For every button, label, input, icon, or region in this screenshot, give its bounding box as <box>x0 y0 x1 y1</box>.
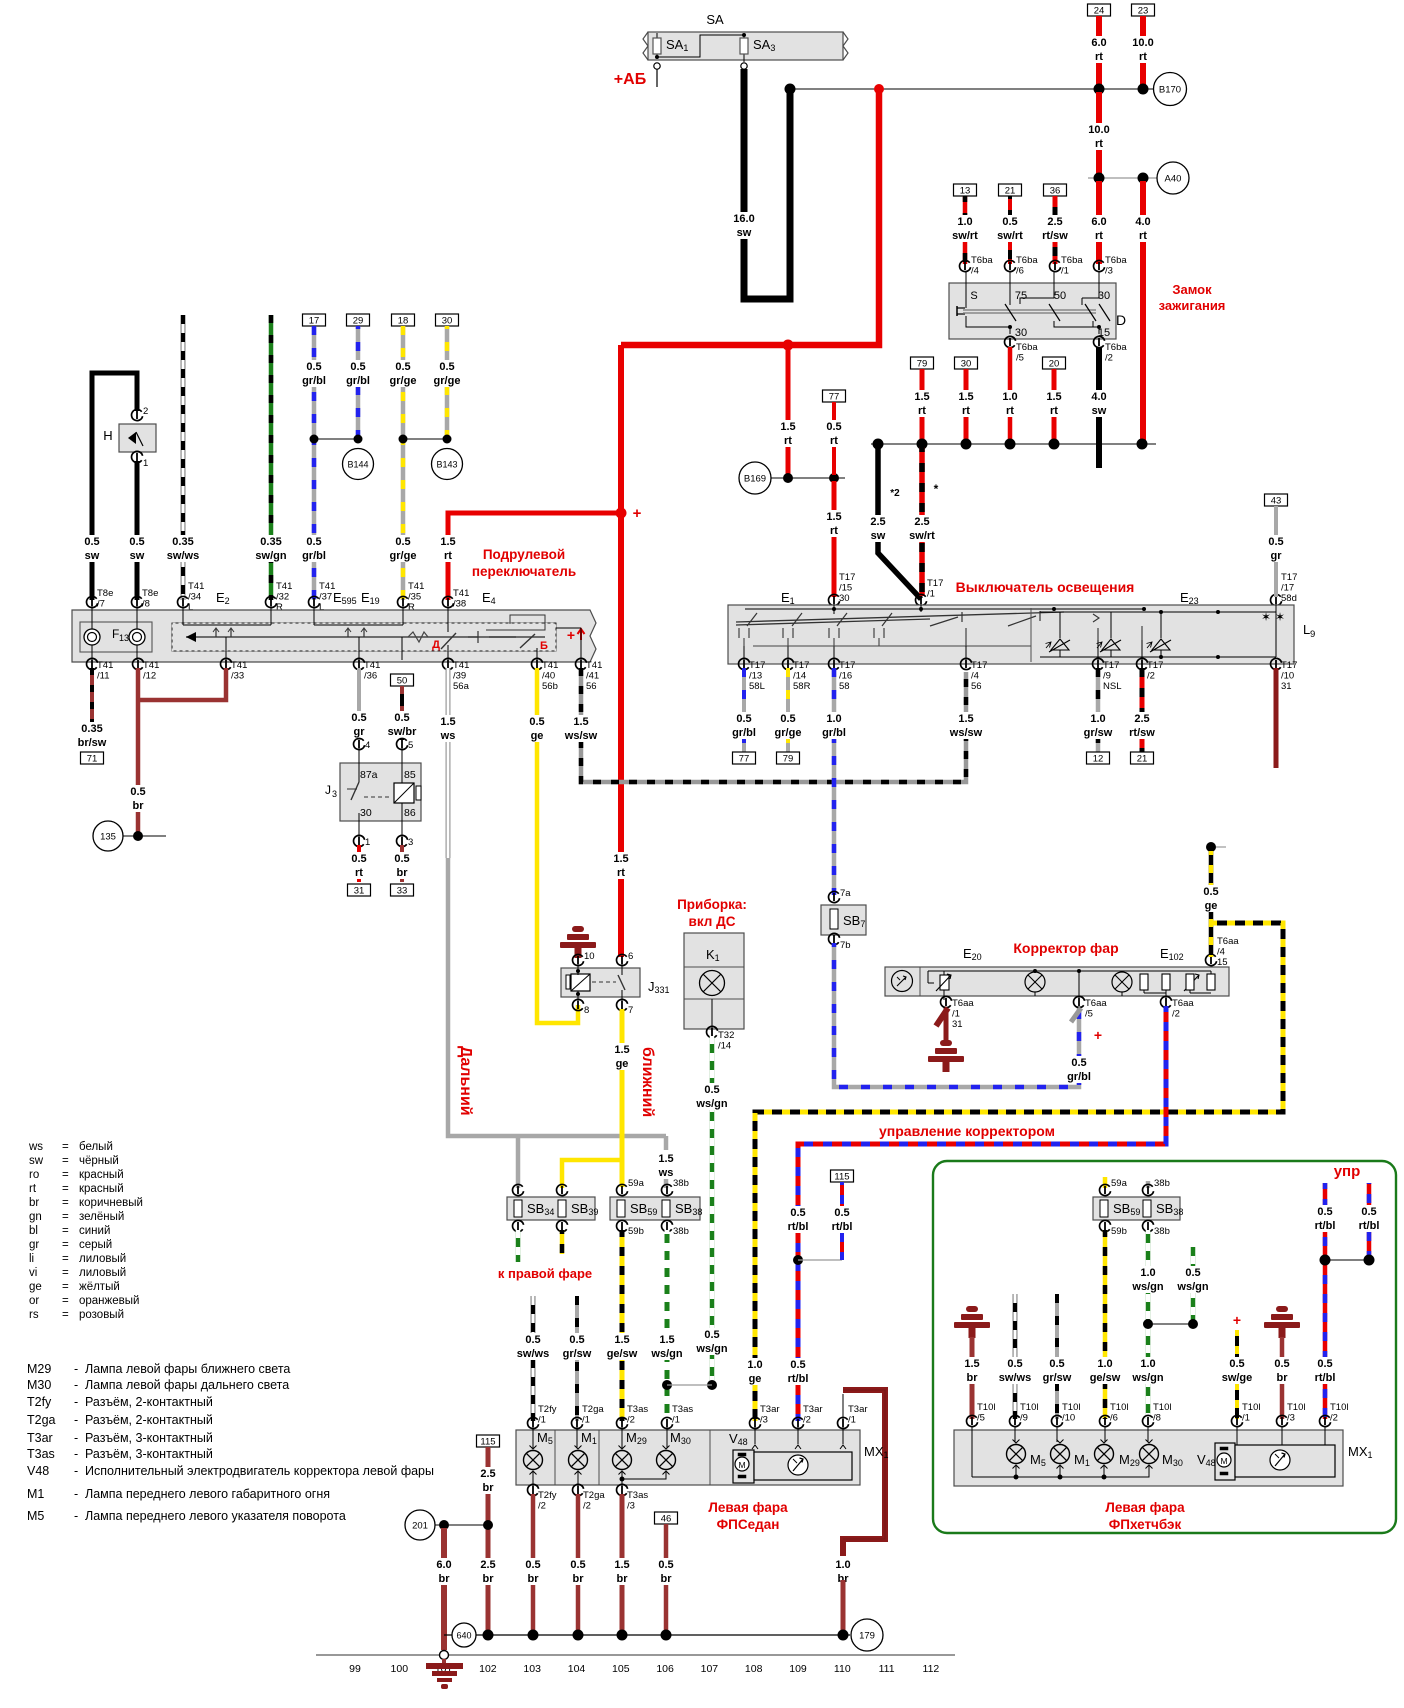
connector J331 pin8 <box>573 999 584 1010</box>
svg-text:T17: T17 <box>749 660 765 671</box>
connector T6ba/5 <box>1005 336 1016 347</box>
node terminal 12 <box>1087 752 1110 764</box>
svg-text:розовый: розовый <box>79 1309 124 1321</box>
svg-text:1.5: 1.5 <box>614 1334 629 1346</box>
connector T41/37 L <box>309 596 320 607</box>
wire 0.5 ws/gn from K1 <box>710 1036 715 1385</box>
svg-text:br: br <box>483 1573 495 1585</box>
svg-text:Приборка:: Приборка: <box>677 897 747 912</box>
svg-text:ws: ws <box>440 730 456 742</box>
svg-text:ws: ws <box>28 1141 43 1153</box>
svg-text:6.0: 6.0 <box>1091 37 1106 49</box>
svg-text:87a: 87a <box>360 769 378 781</box>
svg-text:=: = <box>62 1225 69 1237</box>
svg-text:56a: 56a <box>453 681 470 692</box>
svg-text:T10l: T10l <box>1110 1402 1128 1413</box>
svg-text:зелёный: зелёный <box>79 1211 124 1223</box>
svg-text:29: 29 <box>353 316 364 327</box>
svg-text:0.5: 0.5 <box>790 1207 805 1219</box>
node junction 23-wire <box>1138 84 1149 95</box>
svg-text:T2fy: T2fy <box>27 1395 52 1409</box>
wire 1.5 br from T3as/3 <box>620 1494 625 1632</box>
svg-text:75: 75 <box>1015 290 1027 302</box>
svg-text:59b: 59b <box>1111 1226 1127 1237</box>
svg-text:rt: rt <box>1095 230 1103 242</box>
svg-text:0.5: 0.5 <box>1185 1267 1200 1279</box>
wire 0.5 br from J3 <box>400 845 404 882</box>
node terminal 30 top <box>955 357 978 369</box>
svg-text:/37: /37 <box>319 592 332 603</box>
svg-text:M: M <box>1220 1456 1227 1466</box>
wire 0.5 br to T10l/3 <box>1280 1337 1285 1419</box>
svg-text:T17: T17 <box>839 660 855 671</box>
connector T3as/1 <box>662 1417 673 1428</box>
svg-text:T41: T41 <box>542 660 558 671</box>
wire 0.5 rt from 77 <box>832 402 836 475</box>
node terminal 17 <box>303 314 326 326</box>
svg-text:sw: sw <box>85 550 100 562</box>
wire 1.5 ge/sw from SB59 <box>620 1230 625 1421</box>
svg-text:/33: /33 <box>231 671 244 682</box>
svg-text:16.0: 16.0 <box>733 213 754 225</box>
connector T17/2 <box>1137 658 1148 669</box>
svg-text:/1: /1 <box>1242 1413 1250 1424</box>
svg-text:/4: /4 <box>971 671 979 682</box>
svg-text:br: br <box>1277 1372 1289 1384</box>
connector T6ba/1 <box>1050 260 1061 271</box>
lamp M29 hatchback <box>1104 1427 1106 1442</box>
svg-text:br/sw: br/sw <box>78 737 107 749</box>
svg-text:58L: 58L <box>749 681 765 692</box>
svg-text:50: 50 <box>397 676 408 687</box>
svg-text:56: 56 <box>586 681 597 692</box>
node terminal 43 <box>1265 494 1288 506</box>
wire main red bus <box>621 92 879 345</box>
svg-text:br: br <box>439 1573 451 1585</box>
svg-text:rt: rt <box>784 435 792 447</box>
svg-text:B143: B143 <box>436 460 457 470</box>
svg-text:gr/ge: gr/ge <box>775 727 802 739</box>
wire 1.0 rt from T6ba/5 <box>1008 347 1013 441</box>
svg-text:10.0: 10.0 <box>1132 37 1153 49</box>
svg-text:38b: 38b <box>1154 1226 1170 1237</box>
svg-text:упр: упр <box>1334 1163 1361 1180</box>
svg-text:1.0: 1.0 <box>1002 391 1017 403</box>
node +АБ battery feed <box>654 63 660 69</box>
wire 0.5 sw/ws to T2fy <box>531 1296 536 1421</box>
lamp group diode symbols <box>1059 612 1061 638</box>
bottom scale line <box>316 1654 955 1656</box>
battery ground symbol <box>426 1663 463 1669</box>
svg-text:0.5: 0.5 <box>1203 886 1218 898</box>
svg-text:0.5: 0.5 <box>1002 216 1017 228</box>
light switch body E1/E23 <box>728 605 1294 664</box>
node 135 <box>93 821 123 851</box>
wire distribution line <box>871 443 1156 445</box>
svg-text:/13: /13 <box>749 671 762 682</box>
svg-text:T10l: T10l <box>1287 1402 1305 1413</box>
svg-text:H: H <box>103 428 112 443</box>
connector T3as/2 <box>617 1417 628 1428</box>
svg-text:rt: rt <box>444 550 452 562</box>
svg-text:br: br <box>967 1372 979 1384</box>
svg-text:0.5: 0.5 <box>1071 1057 1086 1069</box>
svg-text:30: 30 <box>1015 327 1027 339</box>
light switch internals <box>745 608 1144 610</box>
wire 1.0 ws/gn hatchback <box>1146 1230 1151 1419</box>
svg-text:T3ar: T3ar <box>848 1404 868 1415</box>
node terminal 77 <box>733 752 756 764</box>
svg-text:T17: T17 <box>1281 660 1297 671</box>
svg-text:1.0: 1.0 <box>835 1559 850 1571</box>
svg-text:111: 111 <box>879 1663 895 1675</box>
svg-text:31: 31 <box>354 886 365 897</box>
svg-text:T6ba: T6ba <box>1105 255 1127 266</box>
svg-text:/35: /35 <box>408 592 421 603</box>
node junction ws/gn hatchback <box>1143 1319 1153 1329</box>
wire 4.0 rt from A40 line down <box>1140 181 1146 441</box>
ground above J331 <box>572 926 584 932</box>
svg-text:gr: gr <box>29 1239 39 1251</box>
connector T41/41 56 <box>576 658 587 669</box>
connector T10l/5 <box>967 1415 978 1426</box>
wire 1.5 ws from T41/39 <box>446 668 451 858</box>
svg-text:/14: /14 <box>718 1041 731 1052</box>
svg-text:M: M <box>738 1460 745 1470</box>
svg-text:лиловый: лиловый <box>79 1267 126 1279</box>
svg-text:102: 102 <box>479 1663 497 1675</box>
svg-text:2.5: 2.5 <box>870 516 885 528</box>
svg-text:85: 85 <box>404 769 416 781</box>
ground bus line <box>444 1634 850 1636</box>
svg-text:2.5: 2.5 <box>480 1468 495 1480</box>
svg-text:79: 79 <box>783 754 794 765</box>
svg-text:T6aa: T6aa <box>952 998 974 1009</box>
svg-text:M5: M5 <box>27 1509 44 1523</box>
svg-text:/5: /5 <box>1085 1009 1093 1020</box>
svg-text:T2ga: T2ga <box>27 1413 56 1427</box>
node red junction at bus <box>874 84 884 94</box>
wire 2.5 rt/sw <box>1053 196 1058 264</box>
connector T41/35 R <box>398 596 409 607</box>
wire 1.5 rt from 30 <box>964 369 969 441</box>
svg-text:1.0: 1.0 <box>1140 1358 1155 1370</box>
svg-text:38b: 38b <box>673 1226 689 1237</box>
connector T6ba/6 <box>1005 260 1016 271</box>
svg-text:T10l: T10l <box>977 1402 995 1413</box>
svg-text:T6ba: T6ba <box>1061 255 1083 266</box>
svg-text:33: 33 <box>397 886 408 897</box>
wire 10.0 rt down to A40 line <box>1096 92 1102 175</box>
svg-text:sw/gn: sw/gn <box>255 550 286 562</box>
svg-text:T3as: T3as <box>627 1490 648 1501</box>
connector T41/32 R <box>266 596 277 607</box>
wire 4.0 sw from T6ba/2 <box>1096 347 1102 468</box>
svg-text:0.5: 0.5 <box>351 712 366 724</box>
fuse SA1 <box>656 33 658 57</box>
svg-text:1.5: 1.5 <box>826 511 841 523</box>
svg-text:чёрный: чёрный <box>79 1155 119 1167</box>
svg-text:управление корректором: управление корректором <box>879 1123 1055 1139</box>
svg-text:sw/rt: sw/rt <box>909 530 935 542</box>
svg-text:59a: 59a <box>1111 1178 1128 1189</box>
svg-text:106: 106 <box>656 1663 674 1675</box>
node junction SA3 wire to bus <box>785 84 796 95</box>
svg-text:99: 99 <box>349 1663 361 1675</box>
svg-text:-: - <box>74 1509 78 1523</box>
svg-text:T17: T17 <box>971 660 987 671</box>
left headlight hatchback body MX1 <box>954 1430 1343 1486</box>
svg-text:ge: ge <box>749 1373 762 1385</box>
svg-text:/36: /36 <box>364 671 377 682</box>
connector T3ar/2 <box>793 1417 804 1428</box>
svg-text:T6ba: T6ba <box>971 255 993 266</box>
node 201 <box>405 1510 435 1540</box>
svg-text:2.5: 2.5 <box>480 1559 495 1571</box>
svg-text:/39: /39 <box>453 671 466 682</box>
connector J331 pin7 <box>617 999 628 1010</box>
wire 16.0 sw from SA3 <box>741 63 747 69</box>
svg-text:/2: /2 <box>583 1501 591 1512</box>
fuse SB7 <box>829 891 840 902</box>
svg-text:rt/bl: rt/bl <box>832 1221 853 1233</box>
svg-text:rt: rt <box>830 435 838 447</box>
svg-text:0.5: 0.5 <box>1361 1206 1376 1218</box>
svg-text:/17: /17 <box>1281 583 1294 594</box>
svg-text:-: - <box>74 1378 78 1392</box>
svg-text:21: 21 <box>1005 186 1016 197</box>
svg-text:30: 30 <box>1098 290 1110 302</box>
svg-text:1.5: 1.5 <box>780 421 795 433</box>
svg-text:0.5: 0.5 <box>529 716 544 728</box>
svg-text:=: = <box>62 1295 69 1307</box>
svg-text:/4: /4 <box>1217 947 1225 958</box>
svg-text:Разъём, 2-контактный: Разъём, 2-контактный <box>85 1413 213 1427</box>
svg-text:0.35: 0.35 <box>81 723 102 735</box>
svg-text:D: D <box>1116 312 1126 328</box>
svg-text:=: = <box>62 1169 69 1181</box>
wire 2.5 br from 115 <box>486 1447 491 1632</box>
svg-text:✶: ✶ <box>1275 610 1285 624</box>
svg-text:/10: /10 <box>1281 671 1294 682</box>
svg-text:T2ga: T2ga <box>583 1490 605 1501</box>
connector T3as/3 <box>617 1484 628 1495</box>
svg-text:T41: T41 <box>231 660 247 671</box>
svg-text:1.0: 1.0 <box>1097 1358 1112 1370</box>
svg-text:=: = <box>62 1211 69 1223</box>
svg-text:10.0: 10.0 <box>1088 124 1109 136</box>
svg-text:gr: gr <box>354 726 366 738</box>
svg-text:gr/bl: gr/bl <box>732 727 756 739</box>
svg-text:rt: rt <box>617 867 625 879</box>
svg-text:/5: /5 <box>1016 353 1024 364</box>
wire 1.5 rt from 20 <box>1052 369 1057 441</box>
svg-text:rt/sw: rt/sw <box>1042 230 1068 242</box>
connector T8e/8 <box>132 596 143 607</box>
svg-text:0.5: 0.5 <box>1007 1358 1022 1370</box>
connector T6aa/2 <box>1161 996 1172 1007</box>
wire gray stub to SB38 <box>664 1179 669 1188</box>
svg-text:rt: rt <box>1095 51 1103 63</box>
svg-text:103: 103 <box>523 1663 541 1675</box>
svg-text:Левая фара: Левая фара <box>708 1500 788 1515</box>
svg-text:bl: bl <box>29 1225 38 1237</box>
svg-text:36: 36 <box>1050 186 1061 197</box>
corrector internals <box>919 967 921 996</box>
svg-text:T3ar: T3ar <box>760 1404 780 1415</box>
svg-text:-: - <box>74 1487 78 1501</box>
svg-text:зажигания: зажигания <box>1159 298 1226 313</box>
svg-text:br: br <box>397 867 409 879</box>
svg-text:0.5: 0.5 <box>394 853 409 865</box>
wire dark red V48 return loop <box>843 1390 885 1556</box>
wire 6.0 rt to ignition lock 30 <box>1096 181 1102 264</box>
wire rt/bl corrector control <box>798 1006 1166 1421</box>
node terminal 24 <box>1088 4 1111 16</box>
svg-text:1.5: 1.5 <box>958 391 973 403</box>
svg-text:-: - <box>74 1464 78 1478</box>
connector J3 pin3 <box>397 835 408 846</box>
wire 2.5 rt/sw from T17/2 <box>1140 668 1145 752</box>
svg-text:sw: sw <box>871 530 886 542</box>
svg-text:-: - <box>74 1413 78 1427</box>
svg-text:0.5: 0.5 <box>704 1084 719 1096</box>
lamp M30 hatchback <box>1147 1427 1149 1442</box>
wire 0.5 ws/gn stub hatchback <box>1191 1247 1196 1324</box>
lamp M5 hatchback <box>1014 1427 1016 1442</box>
svg-text:gn: gn <box>29 1211 42 1223</box>
node terminal 13 <box>954 184 977 196</box>
wire 0.5 br from T2fy/2 <box>531 1494 536 1632</box>
wire 0.5 gr from T41/36 <box>357 668 361 740</box>
node junction gr/ge pair <box>403 438 447 440</box>
svg-text:ФПСедан: ФПСедан <box>717 1517 780 1532</box>
svg-text:71: 71 <box>87 754 98 765</box>
svg-text:rt: rt <box>29 1183 37 1195</box>
svg-text:31: 31 <box>1281 681 1292 692</box>
svg-text:5: 5 <box>408 740 413 751</box>
svg-text:T6ba: T6ba <box>1016 255 1038 266</box>
svg-text:-: - <box>74 1362 78 1376</box>
svg-text:sw: sw <box>737 227 752 239</box>
svg-text:T3as: T3as <box>672 1404 693 1415</box>
fuse box SA <box>648 32 843 60</box>
svg-text:gr/bl: gr/bl <box>822 727 846 739</box>
connector T41/36 <box>354 658 365 669</box>
svg-text:15: 15 <box>1217 957 1228 968</box>
svg-text:0.5: 0.5 <box>834 1207 849 1219</box>
svg-text:86: 86 <box>404 807 416 819</box>
svg-text:gr/sw: gr/sw <box>563 1348 592 1360</box>
svg-text:0.5: 0.5 <box>306 361 321 373</box>
svg-text:107: 107 <box>701 1663 719 1675</box>
connector T6aa/1 31 <box>941 996 952 1007</box>
svg-text:9: 9 <box>1310 629 1315 640</box>
svg-text:4: 4 <box>365 740 370 751</box>
svg-text:gr/ge: gr/ge <box>390 550 417 562</box>
svg-text:Выключатель освещения: Выключатель освещения <box>956 579 1135 595</box>
lamp M5 <box>532 1427 534 1448</box>
svg-text:✶: ✶ <box>1261 610 1271 624</box>
connector T10l/9 <box>1010 1415 1021 1426</box>
connector T10l/1 <box>1232 1415 1243 1426</box>
svg-text:0.5: 0.5 <box>129 536 144 548</box>
svg-text:gr/ge: gr/ge <box>390 375 417 387</box>
svg-text:0.5: 0.5 <box>1229 1358 1244 1370</box>
svg-text:-: - <box>74 1395 78 1409</box>
motor V48 <box>754 1427 756 1444</box>
svg-text:59b: 59b <box>628 1226 644 1237</box>
svg-text:/6: /6 <box>1016 266 1024 277</box>
connector T41/38 <box>443 596 454 607</box>
svg-text:B170: B170 <box>1159 85 1181 96</box>
svg-text:rt/bl: rt/bl <box>1315 1372 1336 1384</box>
svg-text:/5: /5 <box>977 1413 985 1424</box>
svg-text:/2: /2 <box>1330 1413 1338 1424</box>
node terminal 79 top <box>911 357 934 369</box>
lamp M1 <box>576 1427 578 1448</box>
relay J331 <box>573 954 584 965</box>
horn H <box>132 409 143 420</box>
connector T6ba/4 <box>960 260 971 271</box>
connector T17/4 56 <box>961 658 972 669</box>
svg-text:M29: M29 <box>27 1362 51 1376</box>
wire gray high-beam route <box>448 858 666 1136</box>
svg-text:Лампа переднего левого габарит: Лампа переднего левого габаритного огня <box>85 1487 330 1501</box>
svg-text:105: 105 <box>612 1663 630 1675</box>
svg-text:1.5: 1.5 <box>613 853 628 865</box>
svg-text:br: br <box>617 1573 629 1585</box>
svg-text:56b: 56b <box>542 681 558 692</box>
svg-text:T17: T17 <box>927 578 943 589</box>
wire 0.35 sw/gn <box>269 315 274 600</box>
svg-text:7a: 7a <box>840 888 851 899</box>
node terminal 21 <box>999 184 1022 196</box>
wire 1.0 ge/sw hatchback <box>1103 1230 1108 1419</box>
svg-text:56: 56 <box>971 681 982 692</box>
svg-text:T17: T17 <box>1103 660 1119 671</box>
wire 1.5 ge low beam from J331 pin7 <box>620 1009 625 1187</box>
node junction 24-wire <box>1094 84 1105 95</box>
svg-text:T10l: T10l <box>1242 1402 1260 1413</box>
relay J3 <box>354 738 365 749</box>
wire 0.5 br from T2ga/2 <box>576 1494 581 1632</box>
node red junction to steering switch <box>616 508 627 519</box>
fuse box SB34 SB39 <box>513 1184 524 1195</box>
svg-text:/10: /10 <box>1062 1413 1075 1424</box>
wire 0.5 sw/br from 50 <box>400 686 404 740</box>
svg-text:Лампа левой фары дальнего свет: Лампа левой фары дальнего света <box>85 1378 289 1392</box>
svg-text:rt: rt <box>830 525 838 537</box>
svg-text:115: 115 <box>480 1437 495 1448</box>
svg-text:NSL: NSL <box>1103 681 1121 692</box>
svg-text:Д: Д <box>432 639 440 651</box>
svg-text:38b: 38b <box>673 1178 689 1189</box>
svg-text:=: = <box>62 1281 69 1293</box>
svg-text:ближний: ближний <box>639 1047 656 1117</box>
svg-text:0.5: 0.5 <box>1317 1358 1332 1370</box>
svg-text:30: 30 <box>961 359 972 370</box>
wire 1.5 rt from 79 <box>920 369 925 441</box>
svg-text:24: 24 <box>1094 6 1105 17</box>
svg-text:T41: T41 <box>97 660 113 671</box>
svg-text:vi: vi <box>29 1267 37 1279</box>
headlight leveling switch body E20/E102 <box>885 967 1229 996</box>
svg-text:108: 108 <box>745 1663 763 1675</box>
svg-text:ge: ge <box>1205 900 1218 912</box>
svg-text:58d: 58d <box>1281 593 1297 604</box>
wire 6.0 br main ground <box>441 1528 447 1650</box>
